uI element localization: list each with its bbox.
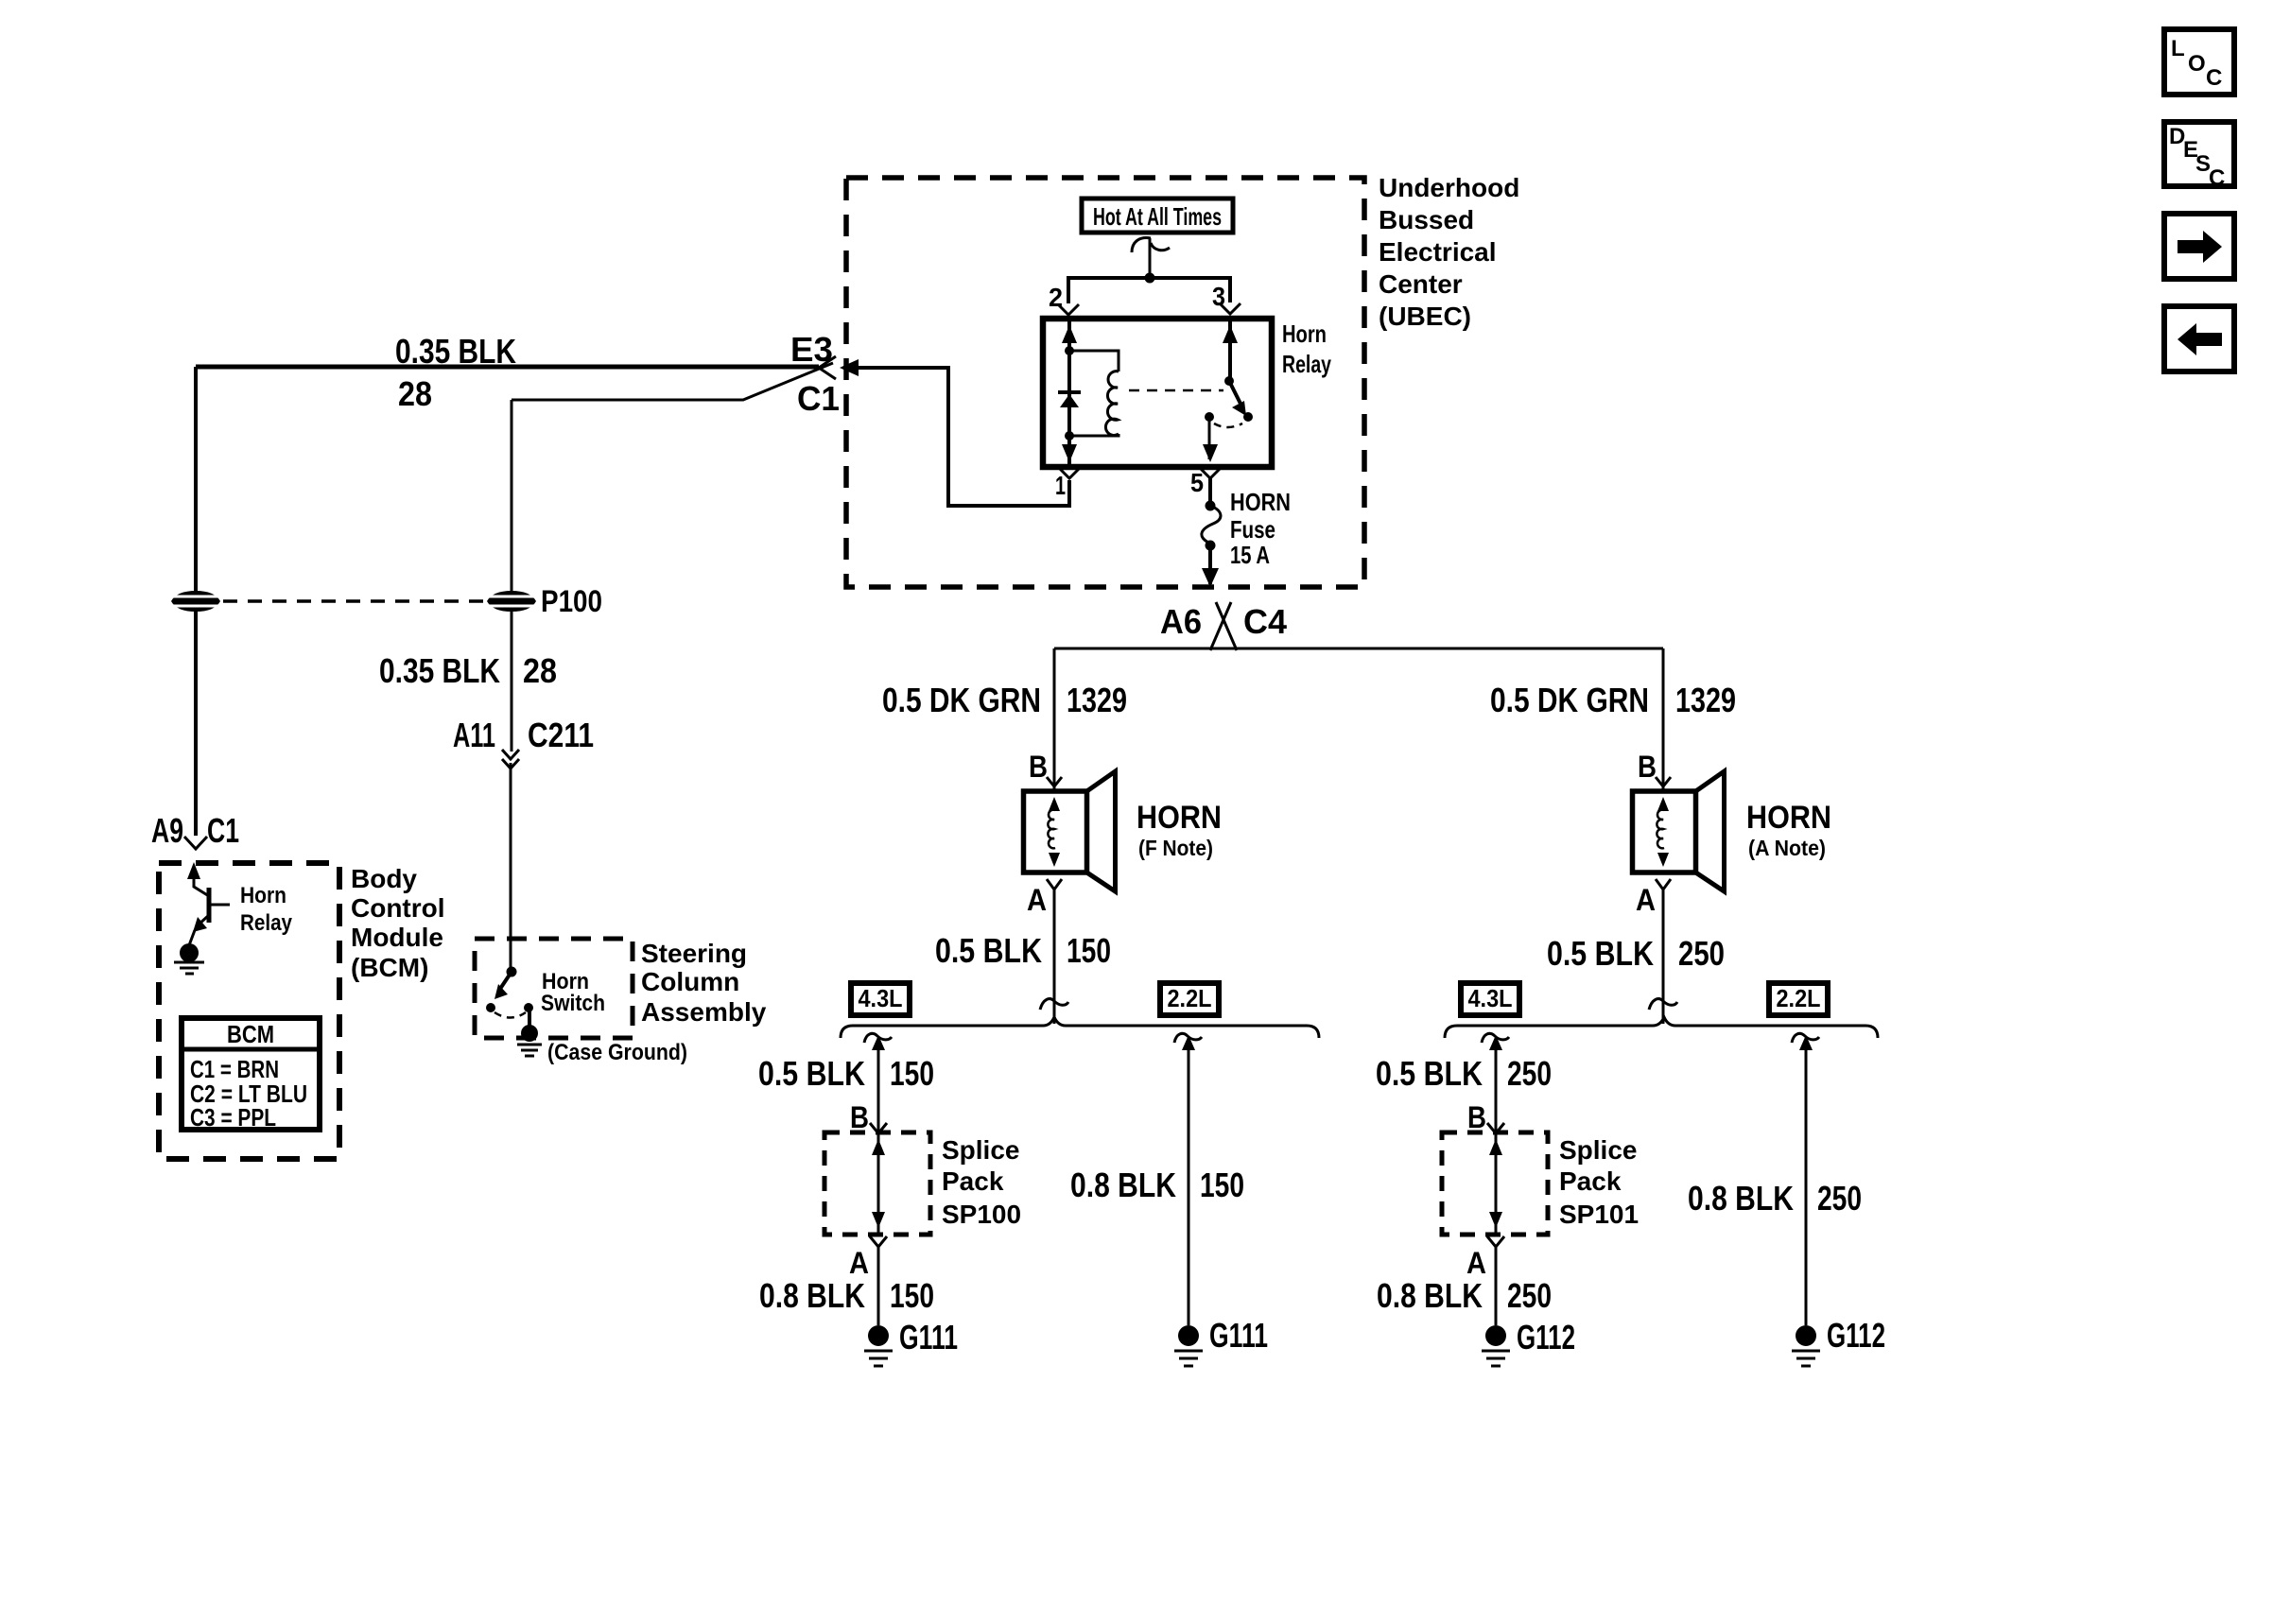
svg-text:5: 5 bbox=[1190, 468, 1204, 497]
svg-text:B: B bbox=[1467, 1100, 1486, 1134]
horn F Note coil bbox=[1048, 810, 1055, 849]
UBEC dashed box bbox=[846, 178, 1364, 587]
svg-text:G112: G112 bbox=[1827, 1316, 1885, 1355]
horn A Note coil bottom arrowhead bbox=[1657, 853, 1669, 867]
pin 2 chevron bbox=[1058, 304, 1079, 315]
svg-text:Underhood: Underhood bbox=[1379, 173, 1519, 202]
svg-text:150: 150 bbox=[890, 1054, 934, 1093]
svg-text:C3 = PPL: C3 = PPL bbox=[190, 1103, 276, 1132]
svg-text:G112: G112 bbox=[1517, 1318, 1575, 1356]
svg-text:Switch: Switch bbox=[541, 991, 605, 1016]
svg-text:BCM: BCM bbox=[227, 1020, 274, 1048]
horn B chevron bbox=[1047, 777, 1062, 786]
wire left vertical (BCM A9 drop) bbox=[194, 367, 198, 836]
svg-text:(Case Ground): (Case Ground) bbox=[547, 1040, 687, 1065]
brace left group bbox=[841, 1017, 1319, 1038]
relay switch closed contact dot bbox=[1243, 412, 1253, 422]
svg-text:Relay: Relay bbox=[1282, 350, 1331, 378]
Splice Pack SP100 dashed box bbox=[824, 1132, 930, 1235]
wire horn B drop bbox=[1053, 648, 1056, 789]
svg-text:Splice: Splice bbox=[1559, 1135, 1637, 1165]
nav button next (right arrow) bbox=[2164, 214, 2234, 279]
relay switch blade bbox=[1229, 381, 1241, 406]
splice B chevron bbox=[870, 1123, 887, 1133]
svg-text:Horn: Horn bbox=[1282, 320, 1327, 348]
svg-text:4.3L: 4.3L bbox=[1468, 984, 1513, 1012]
svg-text:HORN: HORN bbox=[1136, 800, 1222, 836]
svg-text:HORN: HORN bbox=[1746, 800, 1831, 836]
horn switch travel dashed arc bbox=[495, 1012, 526, 1018]
horn switch pivot dot bbox=[507, 967, 517, 977]
svg-text:A: A bbox=[849, 1246, 869, 1280]
wire horn B drop bbox=[1662, 648, 1665, 789]
transistor collector arrowhead bbox=[187, 862, 200, 879]
splice B chevron bbox=[1487, 1123, 1504, 1133]
svg-text:A: A bbox=[1027, 883, 1047, 917]
brace right group bbox=[1445, 1017, 1878, 1038]
splice pack internal wire bbox=[877, 1133, 880, 1234]
horn F Note speaker flare bbox=[1087, 771, 1116, 891]
relay coil bbox=[1105, 371, 1119, 436]
ground dot G112 bbox=[1485, 1325, 1506, 1346]
coil branch junction dot top bbox=[1065, 346, 1074, 355]
svg-text:Fuse: Fuse bbox=[1230, 515, 1275, 544]
ground symbol G111 bbox=[864, 1350, 893, 1353]
transistor emitter arrowhead bbox=[193, 917, 207, 932]
horn F Note body bbox=[1024, 791, 1087, 872]
svg-text:0.35 BLK: 0.35 BLK bbox=[379, 651, 500, 690]
transistor collector lead bbox=[194, 874, 209, 896]
relay switch feed arrowhead bbox=[1223, 325, 1238, 343]
engine label 4.3L (right) bbox=[1461, 983, 1519, 1015]
svg-text:150: 150 bbox=[1067, 931, 1111, 970]
emitter wire to ground dot bbox=[189, 930, 195, 945]
splice pack down arrowhead bbox=[1489, 1212, 1502, 1228]
svg-text:Pack: Pack bbox=[942, 1166, 1004, 1196]
svg-text:0.35 BLK: 0.35 BLK bbox=[395, 332, 516, 371]
connector E3/C1 female chevron bbox=[819, 356, 836, 379]
svg-text:A11: A11 bbox=[453, 716, 495, 754]
Splice Pack SP101 dashed box bbox=[1442, 1132, 1548, 1235]
svg-text:0.5 DK GRN: 0.5 DK GRN bbox=[882, 681, 1041, 719]
splice A chevron bbox=[870, 1236, 887, 1247]
svg-text:G111: G111 bbox=[1209, 1316, 1268, 1355]
wire into horn switch bbox=[510, 763, 512, 970]
svg-text:HORN: HORN bbox=[1230, 488, 1291, 516]
pin 5 chevron bbox=[1200, 468, 1221, 478]
horn F Note coil top arrowhead bbox=[1049, 797, 1060, 811]
connector P100 symbol bbox=[487, 591, 536, 612]
transistor base bar bbox=[207, 888, 212, 923]
coil branch bottom arrowhead bbox=[1062, 444, 1077, 462]
horn A Note speaker flare bbox=[1696, 771, 1725, 891]
splice pack internal wire bbox=[1495, 1133, 1498, 1234]
case ground symbol bbox=[517, 1044, 542, 1046]
svg-text:C1: C1 bbox=[207, 811, 239, 850]
svg-text:P100: P100 bbox=[541, 584, 602, 618]
svg-text:G111: G111 bbox=[899, 1318, 958, 1356]
nav button LOC bbox=[2164, 29, 2234, 95]
ground symbol (BCM) bbox=[174, 961, 204, 964]
arrowhead at UBEC bottom edge bbox=[1202, 568, 1219, 587]
svg-text:A: A bbox=[1636, 883, 1656, 917]
svg-text:Assembly: Assembly bbox=[641, 997, 767, 1027]
inline connector on left wire bbox=[171, 591, 220, 612]
svg-text:B: B bbox=[850, 1100, 869, 1134]
Steering column dashed box bbox=[475, 939, 633, 1038]
wire contact to case ground dot bbox=[528, 1008, 531, 1027]
coil branch junction dot bottom bbox=[1065, 431, 1074, 441]
wire splice pack to ground bbox=[877, 1247, 880, 1325]
svg-text:250: 250 bbox=[1507, 1276, 1552, 1315]
svg-text:Pack: Pack bbox=[1559, 1166, 1622, 1196]
svg-text:O: O bbox=[2188, 51, 2206, 77]
svg-text:0.5 BLK: 0.5 BLK bbox=[935, 931, 1042, 970]
ground dot G112 bbox=[1796, 1325, 1816, 1346]
svg-text:(UBEC): (UBEC) bbox=[1379, 302, 1471, 331]
svg-text:Module: Module bbox=[351, 923, 443, 952]
svg-text:SP100: SP100 bbox=[942, 1200, 1021, 1229]
svg-text:Body: Body bbox=[351, 864, 417, 893]
BCM connector table bbox=[182, 1018, 320, 1132]
svg-text:1329: 1329 bbox=[1067, 681, 1127, 719]
horn F Note coil bottom arrowhead bbox=[1049, 853, 1060, 867]
engine label 2.2L (right) bbox=[1769, 983, 1828, 1015]
branch tick bbox=[1174, 1033, 1202, 1043]
svg-text:0.8 BLK: 0.8 BLK bbox=[1070, 1166, 1176, 1204]
svg-text:Electrical: Electrical bbox=[1379, 237, 1497, 267]
relay coil branch vertical bbox=[1067, 321, 1071, 464]
svg-text:Relay: Relay bbox=[240, 910, 293, 936]
wire fuse to UBEC edge bbox=[1208, 545, 1212, 584]
svg-text:(BCM): (BCM) bbox=[351, 953, 428, 982]
svg-text:Control: Control bbox=[351, 893, 445, 923]
connector E3/C1 male arrowhead bbox=[840, 359, 859, 376]
wire pin 5 to fuse bbox=[1208, 478, 1212, 503]
svg-text:C4: C4 bbox=[1243, 602, 1287, 641]
wire 0.35 BLK 28 (BCM A9 to E3) top horizontal bbox=[196, 365, 819, 370]
relay output arrowhead at box bottom bbox=[1203, 444, 1218, 462]
svg-text:Column: Column bbox=[641, 967, 739, 996]
relay coil to switch dashed link bbox=[1129, 389, 1223, 392]
connector A11/C211 double chevron bbox=[502, 750, 519, 759]
svg-text:SP101: SP101 bbox=[1559, 1200, 1639, 1229]
wire brace to splice pack bbox=[1495, 1038, 1498, 1132]
ground symbol G111 bbox=[1174, 1350, 1203, 1353]
pin 3 chevron bbox=[1220, 303, 1241, 314]
connector A6/C4 X symbol bbox=[1210, 602, 1231, 650]
svg-text:Steering: Steering bbox=[641, 939, 747, 968]
svg-text:(A Note): (A Note) bbox=[1748, 836, 1826, 860]
wire splice pack to ground bbox=[1495, 1247, 1498, 1325]
wire C1 diagonal from steering column branch bbox=[512, 363, 833, 400]
svg-text:28: 28 bbox=[398, 374, 432, 413]
relay switch output wire bbox=[1208, 420, 1211, 459]
wire horn feed bus below A6/C4 bbox=[1054, 648, 1663, 650]
wire brace to splice pack bbox=[877, 1038, 880, 1132]
horn A chevron bbox=[1656, 879, 1671, 890]
coil branch top arrowhead bbox=[1062, 325, 1077, 343]
squiggle at right horn wire bottom bbox=[1649, 999, 1677, 1010]
horn relay box bbox=[1043, 319, 1272, 467]
engine label 2.2L (left) bbox=[1160, 983, 1219, 1015]
svg-text:1329: 1329 bbox=[1675, 681, 1736, 719]
splice pack up arrowhead bbox=[872, 1139, 885, 1155]
svg-text:C1: C1 bbox=[797, 379, 840, 418]
svg-text:Hot At All Times: Hot At All Times bbox=[1093, 202, 1222, 231]
HORN fuse symbol bbox=[1206, 501, 1216, 511]
ground symbol G112 bbox=[1482, 1350, 1510, 1353]
svg-text:Center: Center bbox=[1379, 269, 1463, 299]
svg-text:C: C bbox=[2206, 65, 2222, 91]
svg-text:A6: A6 bbox=[1160, 602, 1202, 641]
relay switch feed vertical bbox=[1228, 321, 1232, 377]
svg-text:0.5 BLK: 0.5 BLK bbox=[758, 1054, 865, 1093]
branch tick bbox=[1792, 1033, 1819, 1043]
wire brace to ground bbox=[1188, 1038, 1190, 1325]
svg-text:250: 250 bbox=[1507, 1054, 1552, 1093]
engine label 4.3L (left) bbox=[851, 983, 910, 1015]
splice pack down arrowhead bbox=[872, 1212, 885, 1228]
svg-text:0.5 DK GRN: 0.5 DK GRN bbox=[1490, 681, 1649, 719]
svg-text:A9: A9 bbox=[151, 811, 183, 850]
svg-text:0.8 BLK: 0.8 BLK bbox=[1377, 1276, 1483, 1315]
ground symbol G112 bbox=[1792, 1350, 1820, 1353]
bus junction dot bbox=[1145, 273, 1155, 284]
svg-text:Horn: Horn bbox=[240, 883, 286, 908]
svg-text:C211: C211 bbox=[528, 716, 594, 754]
relay switch travel dashed arc bbox=[1214, 423, 1242, 427]
svg-text:15 A: 15 A bbox=[1230, 541, 1270, 569]
Hot At All Times box bbox=[1082, 199, 1233, 233]
svg-text:4.3L: 4.3L bbox=[859, 984, 903, 1012]
svg-text:1: 1 bbox=[1055, 471, 1066, 500]
horn A Note coil top arrowhead bbox=[1657, 797, 1669, 811]
nav button back (left arrow) bbox=[2164, 306, 2234, 371]
relay diode triangle bbox=[1060, 394, 1079, 407]
squiggle at left horn wire bottom bbox=[1040, 999, 1068, 1010]
splice pack up arrowhead bbox=[1489, 1139, 1502, 1155]
wire horn A to brace bbox=[1053, 890, 1056, 1024]
horn A Note body bbox=[1633, 791, 1696, 872]
pin 1 chevron bbox=[1059, 468, 1080, 478]
svg-text:0.5 BLK: 0.5 BLK bbox=[1547, 934, 1654, 973]
svg-text:2.2L: 2.2L bbox=[1168, 984, 1212, 1012]
power tap symbol below Hot box bbox=[1132, 238, 1151, 252]
ground dot G111 bbox=[1178, 1325, 1199, 1346]
ground dot G111 bbox=[868, 1325, 889, 1346]
wire horn A to brace bbox=[1662, 890, 1665, 1024]
BCM dashed box bbox=[159, 863, 339, 1159]
bus wire above relay pins 2 and 3 bbox=[1068, 278, 1230, 303]
horn B chevron bbox=[1656, 777, 1671, 786]
svg-text:B: B bbox=[1029, 750, 1048, 784]
svg-text:0.8 BLK: 0.8 BLK bbox=[759, 1276, 865, 1315]
transistor base lead bbox=[209, 904, 230, 907]
wire brace to ground bbox=[1805, 1038, 1808, 1325]
case ground dot bbox=[521, 1025, 538, 1042]
horn switch arm arrowhead bbox=[495, 984, 508, 999]
svg-text:Splice: Splice bbox=[942, 1135, 1019, 1165]
horn switch stationary contact bbox=[486, 1003, 495, 1012]
horn A Note coil bbox=[1657, 810, 1664, 849]
svg-text:C: C bbox=[2209, 165, 2225, 191]
wire 0.35 BLK 28 (P100 to horn switch) bbox=[511, 400, 513, 591]
svg-text:150: 150 bbox=[890, 1276, 934, 1315]
svg-text:(F Note): (F Note) bbox=[1138, 836, 1213, 860]
svg-text:28: 28 bbox=[523, 651, 557, 690]
relay switch blade arrowhead bbox=[1232, 401, 1246, 416]
svg-text:B: B bbox=[1638, 750, 1657, 784]
branch tick bbox=[864, 1033, 892, 1043]
branch tick bbox=[1482, 1033, 1509, 1043]
relay switch common contact dot bbox=[1205, 412, 1214, 422]
dashed pass-through link to P100 bbox=[223, 599, 484, 603]
relay coil link wires bbox=[1069, 351, 1119, 371]
svg-text:150: 150 bbox=[1200, 1166, 1244, 1204]
svg-text:250: 250 bbox=[1817, 1179, 1862, 1218]
wire tap to bus bbox=[1149, 238, 1152, 276]
transistor emitter lead bbox=[198, 915, 209, 925]
connector A9/C1 chevron bbox=[184, 837, 207, 849]
splice A chevron bbox=[1487, 1236, 1504, 1247]
svg-text:0.8 BLK: 0.8 BLK bbox=[1688, 1179, 1794, 1218]
svg-text:250: 250 bbox=[1678, 934, 1725, 973]
horn switch arm bbox=[500, 972, 512, 989]
ground dot (BCM) bbox=[180, 943, 199, 962]
svg-text:Bussed: Bussed bbox=[1379, 205, 1474, 234]
svg-text:0.5 BLK: 0.5 BLK bbox=[1376, 1054, 1483, 1093]
nav button DESC bbox=[2164, 122, 2234, 191]
svg-text:L: L bbox=[2171, 36, 2185, 61]
svg-text:2.2L: 2.2L bbox=[1777, 984, 1821, 1012]
horn switch output contact bbox=[524, 1003, 533, 1012]
horn A chevron bbox=[1047, 879, 1062, 890]
relay switch pivot dot bbox=[1224, 376, 1234, 386]
svg-text:A: A bbox=[1466, 1246, 1486, 1280]
relay diode bar bbox=[1058, 390, 1081, 394]
wire from E3 into UBEC to relay pin 1 bbox=[855, 368, 1069, 506]
